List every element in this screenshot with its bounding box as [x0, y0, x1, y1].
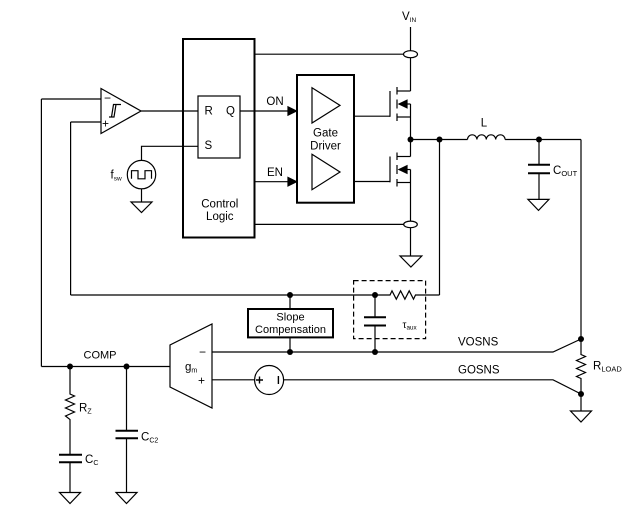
node output: [536, 137, 542, 143]
SR latch: [198, 96, 240, 158]
gate driver block: [297, 75, 354, 203]
wire VOSNS: [212, 339, 581, 352]
svg-text:S: S: [205, 140, 213, 152]
transistor Q2 low-side: [354, 153, 411, 187]
node RZ: [67, 364, 73, 370]
svg-text:COUT: COUT: [553, 165, 578, 178]
comparator U1: [101, 89, 141, 134]
wire slope comp top: [289, 295, 291, 309]
wire PGND terminal to ground: [410, 228, 412, 256]
wire slope line: [71, 294, 375, 296]
svg-text:gm: gm: [185, 362, 197, 375]
svg-text:Compensation: Compensation: [255, 324, 326, 336]
node slope comp top: [287, 292, 293, 298]
wire control logic to VIN terminal: [255, 53, 404, 55]
wire switch node to inductor: [411, 139, 468, 141]
svg-text:Gate: Gate: [313, 128, 338, 140]
wire ON: [240, 110, 289, 112]
wire VIN terminal to Q1 drain: [410, 58, 412, 91]
block slope compensation: [248, 309, 333, 337]
wire output to RLOAD: [580, 140, 582, 340]
wire fsw to S input: [142, 146, 199, 160]
wire Q2 source to PGND terminal: [410, 183, 412, 222]
svg-text:Control: Control: [201, 198, 238, 210]
svg-text:Driver: Driver: [310, 141, 341, 153]
capacitor CC2: [116, 367, 139, 493]
wire VIN: [410, 27, 412, 51]
node RLOAD top: [578, 336, 584, 342]
wire COMP: [41, 366, 170, 368]
svg-text:VIN: VIN: [402, 11, 416, 24]
transistor Q1 high-side: [354, 87, 411, 121]
wire comparator inverting input: [41, 98, 101, 100]
svg-text:CC: CC: [85, 454, 98, 467]
ground CC: [60, 493, 81, 504]
svg-text:Logic: Logic: [206, 211, 234, 223]
wire slope line to comparator (second vertical): [70, 122, 72, 295]
oscillator fsw: [127, 160, 155, 188]
wire feedback COMP to comparator (left vertical): [40, 99, 42, 367]
svg-text:−: −: [104, 91, 111, 105]
wire gm plus input: [212, 379, 255, 381]
node CC2: [124, 364, 130, 370]
svg-text:τaux: τaux: [403, 320, 418, 332]
resistor Raux: [375, 291, 440, 299]
node taux cap top: [372, 292, 378, 298]
svg-text:CC2: CC2: [141, 432, 158, 445]
arrowhead EN: [288, 178, 297, 186]
svg-text:Q: Q: [226, 105, 235, 117]
node Caux bottom: [372, 349, 378, 355]
capacitor Caux: [364, 295, 386, 352]
svg-text:RZ: RZ: [79, 403, 92, 416]
svg-text:L: L: [481, 117, 488, 129]
wire output node to right: [539, 139, 581, 141]
node switch: [408, 137, 414, 143]
buffer low side: [312, 154, 340, 189]
wire GOSNS: [284, 380, 581, 394]
svg-text:Slope: Slope: [276, 312, 304, 324]
wire inductor to output node: [505, 139, 539, 141]
svg-text:−: −: [199, 345, 206, 359]
source offset V1: [255, 366, 284, 395]
inductor L: [468, 135, 506, 140]
svg-text:EN: EN: [267, 167, 283, 179]
wire comparator noninverting input: [71, 121, 101, 123]
capacitor CC: [59, 422, 82, 493]
ground CC2: [116, 493, 137, 504]
wire fsw to ground: [141, 189, 143, 202]
svg-text:GOSNS: GOSNS: [458, 365, 500, 377]
node slope comp bottom: [287, 349, 293, 355]
wire comparator output to R input: [141, 110, 198, 112]
terminal PGND: [404, 221, 418, 228]
svg-text:RLOAD: RLOAD: [593, 361, 622, 374]
box taux dashed: [354, 281, 426, 339]
node switch right: [437, 137, 443, 143]
terminal VIN: [404, 51, 418, 58]
arrowhead ON: [288, 107, 297, 115]
wire EN: [255, 181, 290, 183]
ground RLOAD: [571, 411, 592, 422]
amplifier gm: [170, 324, 212, 408]
svg-text:ON: ON: [266, 96, 283, 108]
wire switch node to Q2 drain: [410, 140, 412, 157]
buffer high side: [312, 88, 340, 123]
svg-text:VOSNS: VOSNS: [458, 337, 499, 349]
wire control logic to PGND terminal: [255, 223, 404, 225]
node RLOAD bottom: [578, 391, 584, 397]
svg-text:R: R: [205, 105, 213, 117]
wire RLOAD to ground: [580, 394, 582, 411]
svg-text:+: +: [198, 374, 205, 388]
svg-text:+: +: [102, 117, 109, 131]
ground fsw: [131, 202, 152, 213]
ground COUT: [528, 199, 549, 210]
resistor RZ: [66, 367, 75, 422]
resistor RLOAD: [577, 339, 586, 394]
wire slope comp bottom: [289, 337, 291, 352]
ground PGND: [400, 256, 422, 267]
svg-text:COMP: COMP: [84, 350, 117, 362]
control logic block: [183, 39, 255, 238]
svg-text:fsw: fsw: [111, 170, 122, 183]
capacitor COUT: [528, 140, 550, 200]
wire Q1 source to switch node: [410, 117, 412, 140]
wire Raux to switch node: [439, 140, 441, 296]
